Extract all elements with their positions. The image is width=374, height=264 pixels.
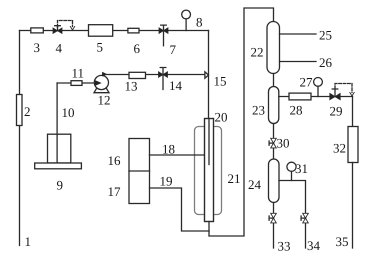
svg-text:33: 33 bbox=[278, 239, 291, 254]
valve 14 bbox=[159, 68, 168, 90]
pump 12 inlet arrow bbox=[95, 80, 102, 86]
vessel 9 base plate bbox=[35, 163, 82, 169]
svg-text:4: 4 bbox=[56, 41, 63, 56]
svg-text:11: 11 bbox=[72, 66, 85, 81]
wire: column 22 to column 23 bbox=[273, 74, 275, 87]
wire 18: thermocouple line bbox=[150, 154, 205, 156]
valve 34 bbox=[301, 213, 308, 223]
svg-text:1: 1 bbox=[25, 234, 32, 249]
wire 25 bbox=[280, 33, 317, 35]
filter 13 bbox=[129, 72, 146, 78]
svg-text:31: 31 bbox=[295, 161, 308, 176]
svg-text:16: 16 bbox=[108, 153, 122, 168]
wire: riser from gauge corner down to column 20 bbox=[208, 31, 210, 119]
wire 26 bbox=[280, 61, 317, 63]
arrow into line (valve 4 actuator) bbox=[70, 27, 74, 30]
svg-text:22: 22 bbox=[251, 45, 264, 60]
svg-text:28: 28 bbox=[290, 103, 303, 118]
svg-text:7: 7 bbox=[170, 42, 177, 57]
wire: gas supply line 1 (left vertical) bbox=[19, 31, 21, 246]
column 21 (outer jacket, gray) bbox=[195, 127, 222, 215]
svg-text:21: 21 bbox=[228, 171, 241, 186]
regulator dashed box of valve 4 bbox=[58, 21, 73, 28]
svg-text:25: 25 bbox=[319, 28, 332, 43]
svg-text:34: 34 bbox=[307, 238, 321, 253]
wire: column 23 side line to valve 29 bbox=[279, 96, 353, 98]
valve 4 bbox=[53, 26, 62, 34]
svg-text:29: 29 bbox=[330, 104, 343, 119]
filter 28 bbox=[289, 93, 311, 100]
filter 11 bbox=[71, 81, 82, 86]
wire: column 24 down to outlet 33 bbox=[273, 203, 275, 249]
arrow into line (valve 29 actuator) bbox=[350, 93, 354, 96]
column 23 separator bbox=[269, 87, 279, 124]
svg-text:18: 18 bbox=[162, 142, 175, 157]
svg-text:20: 20 bbox=[215, 110, 228, 125]
filter 3 bbox=[31, 28, 44, 33]
svg-text:23: 23 bbox=[252, 103, 265, 118]
valve 29 bbox=[330, 89, 340, 100]
svg-text:27: 27 bbox=[300, 75, 314, 90]
vessel 9 beaker bbox=[48, 134, 71, 163]
wire: top feed line bbox=[20, 30, 209, 32]
column 20 (inner tube) bbox=[205, 119, 214, 222]
svg-text:35: 35 bbox=[336, 234, 349, 249]
svg-text:26: 26 bbox=[319, 55, 333, 70]
valve 7 bbox=[159, 25, 168, 46]
wire: valve 29 corner down to trap 32 bbox=[352, 97, 354, 127]
column 22 separator bbox=[267, 22, 280, 74]
heater 5 bbox=[89, 25, 113, 37]
svg-text:9: 9 bbox=[57, 178, 64, 193]
svg-text:2: 2 bbox=[24, 104, 31, 119]
gauge 27 bbox=[314, 78, 323, 87]
svg-text:32: 32 bbox=[333, 141, 346, 156]
wire: column 20 bottom to riser to column 22 bbox=[209, 8, 274, 236]
controller box 16/17 bbox=[129, 139, 150, 204]
pump 12 body bbox=[94, 75, 108, 89]
svg-text:14: 14 bbox=[169, 78, 183, 93]
trap 32 bbox=[348, 127, 358, 163]
pump 12 base bbox=[94, 88, 109, 93]
wire 35: trap 32 down to bottom bbox=[352, 163, 354, 249]
svg-text:3: 3 bbox=[34, 40, 41, 55]
wire: column 23 to column 24 through valve 30 bbox=[273, 124, 275, 160]
feed tube inside column 20 bbox=[208, 119, 210, 165]
svg-text:15: 15 bbox=[214, 74, 227, 89]
svg-text:12: 12 bbox=[98, 93, 111, 108]
gauge 8 bbox=[182, 10, 191, 19]
cylinder 2 bbox=[17, 95, 23, 126]
svg-text:13: 13 bbox=[125, 79, 138, 94]
wire: dip line 10 bbox=[56, 83, 58, 162]
wire 19: lead to bottom line bbox=[150, 188, 210, 231]
pump 12 outlet arrow bbox=[102, 72, 107, 77]
svg-text:8: 8 bbox=[196, 15, 203, 30]
valve 33 bbox=[269, 213, 276, 223]
wire: column 24 side line to valve 34 bbox=[279, 181, 306, 249]
svg-text:10: 10 bbox=[62, 105, 75, 120]
wire: pump outlet line bbox=[105, 74, 205, 76]
column 24 separator bbox=[269, 159, 280, 203]
svg-text:30: 30 bbox=[277, 136, 290, 151]
svg-text:5: 5 bbox=[97, 40, 104, 55]
pump inlet wire from vessel bbox=[57, 82, 95, 84]
regulator dashed box of valve 29 bbox=[335, 84, 352, 93]
svg-text:6: 6 bbox=[134, 41, 141, 56]
gauge 31 bbox=[287, 162, 296, 171]
svg-text:24: 24 bbox=[248, 177, 262, 192]
valve 30 bbox=[269, 138, 276, 148]
svg-text:17: 17 bbox=[108, 184, 122, 199]
check valve 15 bbox=[205, 72, 209, 78]
filter 6 bbox=[128, 28, 139, 33]
svg-text:19: 19 bbox=[160, 174, 173, 189]
